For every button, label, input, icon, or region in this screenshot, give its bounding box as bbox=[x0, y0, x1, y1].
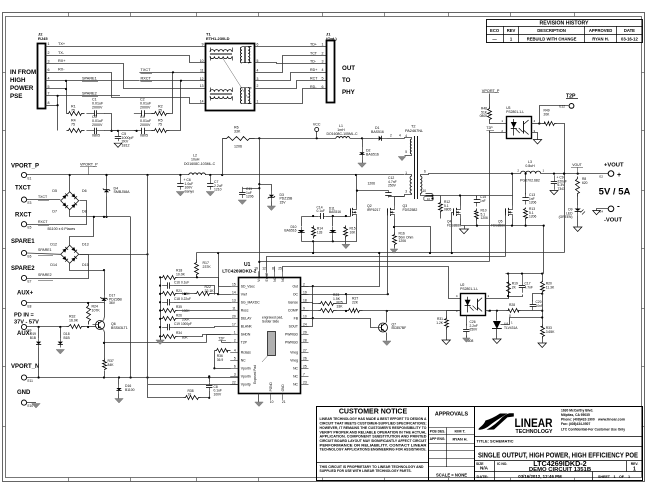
svg-text:75: 75 bbox=[158, 122, 162, 126]
wire R32 to Q6 base bbox=[84, 326, 96, 328]
svg-text:TD+: TD+ bbox=[310, 42, 317, 46]
svg-text:Isense: Isense bbox=[288, 301, 298, 305]
svg-text:7: 7 bbox=[303, 373, 305, 377]
svg-text:C19: C19 bbox=[174, 322, 180, 326]
svg-text:36V: 36V bbox=[109, 301, 116, 305]
vertical VPORT_P feed down bbox=[147, 175, 149, 254]
resistor R34 80K bbox=[161, 335, 178, 339]
svg-text:FDS8880: FDS8880 bbox=[447, 223, 461, 227]
svg-text:DATE:: DATE: bbox=[477, 474, 489, 479]
svg-text:RX+: RX+ bbox=[58, 59, 66, 63]
capacitor C13 1nF 1206 bbox=[525, 193, 527, 198]
wire T1.6 to J1.1 TD+ bbox=[255, 46, 327, 48]
wire J2.8 junction to SPARE2 bbox=[46, 105, 58, 107]
wire SPARE2 to bridge2 right vertex bbox=[27, 255, 89, 279]
svg-text:200K: 200K bbox=[182, 317, 190, 321]
wire TX- J2.2 to T1.10 bbox=[46, 56, 206, 63]
svg-text:22.1K: 22.1K bbox=[205, 289, 215, 293]
svg-text:SUPPLIED FOR USE WITH LINEAR T: SUPPLIED FOR USE WITH LINEAR TECHNOLOGY … bbox=[320, 469, 412, 473]
wire VPORT_P up to R6 bbox=[222, 138, 224, 175]
svg-text:SYNC: SYNC bbox=[265, 272, 269, 282]
svg-text:FDS2582: FDS2582 bbox=[403, 208, 418, 212]
wire U2 pin1 up to top rail bbox=[486, 282, 509, 299]
svg-text:2: 2 bbox=[390, 134, 392, 138]
approvals box bbox=[429, 407, 475, 481]
svg-text:27: 27 bbox=[303, 349, 307, 353]
svg-text:SPARE1: SPARE1 bbox=[11, 239, 35, 245]
wire Q4 gate bbox=[452, 213, 454, 253]
svg-text:RXCT: RXCT bbox=[15, 213, 32, 219]
capacitor C1 0.01uF 2000V bbox=[86, 113, 94, 115]
wire Q4 drain bbox=[460, 196, 462, 206]
diode D2 BAS516 bbox=[362, 138, 364, 147]
svg-text:SMBJ58A: SMBJ58A bbox=[114, 190, 131, 194]
svg-text:APP ENG.: APP ENG. bbox=[430, 437, 446, 441]
wire VPORT_N rail bbox=[27, 377, 239, 379]
capacitor C7 2.2uF 1210 bbox=[210, 175, 212, 184]
wire T1.2 to J1.5 RCT bbox=[255, 81, 327, 89]
wire OC row to Q3 gate bbox=[301, 294, 388, 296]
transformer T1 ETH1-230LD box bbox=[206, 44, 255, 111]
resistor R48 51K 0805 bbox=[488, 107, 492, 121]
svg-text:Rclass: Rclass bbox=[241, 351, 251, 355]
svg-text:PWRGD: PWRGD bbox=[285, 333, 299, 337]
svg-text:RD+: RD+ bbox=[310, 68, 317, 72]
svg-text:VOUT: VOUT bbox=[572, 163, 581, 167]
svg-text:NC: NC bbox=[281, 276, 285, 281]
ground below R31 bbox=[446, 330, 448, 341]
Linear Technology logo bbox=[475, 407, 643, 481]
svg-text:BAS516: BAS516 bbox=[329, 210, 341, 214]
svg-text:11.3K: 11.3K bbox=[546, 285, 555, 289]
svg-text:13: 13 bbox=[232, 298, 236, 302]
capacitor C10 snubber and pin 10 loop bbox=[426, 193, 433, 195]
ground below Q4 bbox=[464, 226, 466, 229]
svg-text:DATE: DATE bbox=[624, 28, 635, 33]
svg-text:D7: D7 bbox=[52, 210, 57, 214]
svg-text:36.9: 36.9 bbox=[217, 358, 224, 362]
T2 core bbox=[414, 136, 416, 199]
resistor R38 10 bbox=[184, 396, 201, 400]
wire bus gate drive A bbox=[197, 252, 565, 254]
zener D3 PDZ15B 15V bbox=[260, 185, 272, 191]
op-amp U1 LTC4269IDKD-2 IC body bbox=[239, 278, 301, 394]
svg-text:PD IN =: PD IN = bbox=[14, 313, 34, 319]
svg-text:ECO: ECO bbox=[490, 28, 500, 33]
wire L1 to D1 bbox=[350, 138, 373, 140]
VCC symbol bbox=[316, 132, 318, 139]
svg-text:12: 12 bbox=[200, 77, 204, 81]
wire N rail horizontal bbox=[70, 216, 131, 218]
wire TLV431 ref bbox=[501, 318, 543, 325]
svg-text:DO1608C-103ML-C: DO1608C-103ML-C bbox=[184, 162, 216, 166]
svg-text:ETH1-230LD: ETH1-230LD bbox=[206, 36, 230, 41]
wire Q3 gate from U1 bbox=[387, 213, 389, 295]
svg-text:LINEAR: LINEAR bbox=[515, 416, 553, 430]
ground below clamp rail bbox=[345, 242, 347, 245]
svg-text:E12: E12 bbox=[559, 105, 565, 109]
svg-text:26: 26 bbox=[303, 357, 307, 361]
svg-text:GND: GND bbox=[17, 390, 31, 396]
LED D9 GREEN bbox=[577, 197, 579, 205]
T1 lower primary winding bbox=[210, 90, 232, 92]
wire Q5 drain to output rail bbox=[512, 196, 514, 206]
svg-text:+: + bbox=[617, 172, 621, 179]
svg-text:PS2801-1-L: PS2801-1-L bbox=[506, 110, 524, 114]
svg-text:1206: 1206 bbox=[246, 195, 254, 199]
svg-text:3: 3 bbox=[48, 59, 50, 63]
wire D1 to T2 pin 4 bbox=[387, 138, 405, 140]
resistor R2 75 bbox=[152, 112, 170, 116]
transistor Q4 FDS8880 bbox=[453, 208, 455, 215]
svg-text:6: 6 bbox=[48, 68, 50, 72]
svg-text:21: 21 bbox=[282, 400, 286, 404]
svg-text:Vneg: Vneg bbox=[290, 351, 298, 355]
svg-text:19: 19 bbox=[303, 290, 307, 294]
wire R18 to U1 SD_Vsec bbox=[178, 278, 231, 287]
svg-text:6: 6 bbox=[257, 43, 259, 47]
resistor R12 5.1 0805 bbox=[439, 201, 443, 213]
svg-text:D5: D5 bbox=[52, 189, 57, 193]
svg-text:REV.: REV. bbox=[631, 462, 639, 466]
svg-text:REVISION HISTORY: REVISION HISTORY bbox=[539, 21, 589, 27]
wire SHDN elbow bbox=[207, 335, 231, 343]
svg-text:1206: 1206 bbox=[367, 182, 375, 186]
capacitor C6 1.0uF 100V Sanyo bbox=[180, 175, 182, 184]
svg-text:(Opt.): (Opt.) bbox=[326, 36, 337, 41]
svg-text:TECHNOLOGY APPLICATIONS ENGINE: TECHNOLOGY APPLICATIONS ENGINEERING FOR … bbox=[320, 448, 427, 452]
wire U2 pin2 row bbox=[486, 310, 507, 312]
svg-text:HIGH: HIGH bbox=[10, 77, 26, 84]
zener D17 PDZ36B 36V bbox=[104, 296, 106, 299]
svg-text:TO: TO bbox=[342, 77, 351, 84]
wire secondary to +VOUT rail bbox=[435, 173, 521, 175]
svg-text:SPARE2: SPARE2 bbox=[82, 91, 97, 95]
wire TXCT to T1.11 bbox=[139, 72, 205, 74]
wire Q6 collector/emitter vertical bbox=[104, 303, 105, 321]
svg-text:COMP: COMP bbox=[288, 309, 299, 313]
svg-text:84K: 84K bbox=[108, 363, 115, 367]
svg-text:R28: R28 bbox=[509, 303, 515, 307]
resistor R26 200K bbox=[161, 317, 178, 321]
svg-text:5V / 5A: 5V / 5A bbox=[599, 187, 631, 198]
resistor R15 10K bbox=[344, 226, 348, 239]
svg-text:SHEET: SHEET bbox=[598, 475, 611, 479]
capacitor C11 1uF 1206 bbox=[243, 188, 260, 190]
svg-text:-VOUT: -VOUT bbox=[604, 218, 622, 224]
svg-text:1630 McCarthy Blvd.: 1630 McCarthy Blvd. bbox=[561, 409, 593, 413]
svg-text:8: 8 bbox=[48, 101, 50, 105]
capacitor C8 0.1uF 100V bbox=[209, 377, 211, 383]
T1 lower secondary winding bbox=[210, 96, 232, 98]
wire T1.3 to J1.4 RD+ bbox=[255, 73, 327, 81]
svg-text:4: 4 bbox=[257, 69, 259, 73]
svg-text:C16: C16 bbox=[174, 281, 180, 285]
svg-text:KIM T.: KIM T. bbox=[455, 430, 466, 434]
optocoupler U3 PS2801-1-L bbox=[507, 117, 532, 139]
svg-text:SPARE1: SPARE1 bbox=[38, 248, 52, 252]
svg-text:GND: GND bbox=[281, 384, 285, 392]
svg-text:B1B: B1B bbox=[30, 336, 37, 340]
svg-text:1206: 1206 bbox=[529, 201, 537, 205]
wire Q4 source to rail bbox=[460, 219, 462, 226]
svg-text:10: 10 bbox=[303, 314, 307, 318]
svg-text:BAS516: BAS516 bbox=[371, 130, 384, 134]
wire R23/R25 bus bbox=[337, 295, 347, 304]
svg-text:620: 620 bbox=[582, 181, 588, 185]
svg-text:2000V: 2000V bbox=[92, 105, 103, 109]
capacitor C14 0.1uF in series bbox=[319, 216, 321, 218]
svg-text:0.22uF: 0.22uF bbox=[181, 297, 191, 301]
capacitor C20 10nF bbox=[521, 310, 533, 312]
wire bus gate drive B bbox=[267, 257, 506, 272]
svg-text:0.8uH: 0.8uH bbox=[525, 164, 535, 168]
svg-text:Vportn: Vportn bbox=[241, 367, 251, 371]
svg-text:AUX+: AUX+ bbox=[17, 290, 34, 296]
sync rect ground rail bbox=[461, 225, 544, 227]
svg-text:DO1608C-105ML-C: DO1608C-105ML-C bbox=[326, 132, 358, 136]
svg-text:2: 2 bbox=[48, 51, 50, 55]
wire bridge1 top to VPORT_P bbox=[69, 175, 71, 192]
svg-text:E3: E3 bbox=[28, 201, 32, 205]
svg-text:8: 8 bbox=[272, 267, 274, 271]
svg-text:U1: U1 bbox=[244, 262, 251, 268]
svg-text:17: 17 bbox=[232, 322, 236, 326]
svg-text:DEMO CIRCUIT 1351B: DEMO CIRCUIT 1351B bbox=[529, 467, 591, 473]
ground below R16 bbox=[394, 247, 396, 249]
svg-text:PWRGD: PWRGD bbox=[285, 341, 299, 345]
svg-text:Solder Side: Solder Side bbox=[262, 319, 279, 323]
svg-text:IC NO.: IC NO. bbox=[497, 462, 507, 466]
svg-text:6: 6 bbox=[234, 365, 236, 369]
title rows bbox=[474, 436, 642, 438]
svg-text:22: 22 bbox=[232, 381, 236, 385]
svg-text:E5: E5 bbox=[28, 226, 32, 230]
resistor R33 3.65K bbox=[541, 325, 545, 339]
capacitor C26 2.2nF 250V 1808 bbox=[466, 324, 468, 329]
svg-text:PG0702.682: PG0702.682 bbox=[520, 179, 540, 183]
wire TX+ J2.1 to T1.9 bbox=[46, 46, 206, 48]
svg-text:E11: E11 bbox=[28, 379, 34, 383]
svg-text:2: 2 bbox=[303, 282, 305, 286]
svg-text:1206: 1206 bbox=[481, 216, 489, 220]
svg-text:SG_MAXDC: SG_MAXDC bbox=[241, 301, 261, 305]
svg-text:RJ45: RJ45 bbox=[38, 36, 48, 41]
svg-text:100V: 100V bbox=[214, 392, 223, 396]
ground below C9 bbox=[550, 191, 558, 195]
svg-text:1: 1 bbox=[257, 100, 259, 104]
resistor R49 20K bbox=[543, 122, 557, 126]
svg-text:100K: 100K bbox=[182, 309, 190, 313]
revision history table bbox=[487, 20, 643, 43]
ground below C26 bbox=[466, 336, 468, 339]
resistor R19 2K bbox=[508, 274, 510, 281]
svg-text:2000V: 2000V bbox=[140, 123, 151, 127]
capacitor C4 0.01uF 2000V 0805 bbox=[134, 130, 142, 132]
svg-text:RX-: RX- bbox=[58, 68, 65, 72]
svg-text:33K: 33K bbox=[337, 304, 344, 308]
svg-text:BLANK: BLANK bbox=[241, 325, 253, 329]
resistor R17 237K bbox=[195, 260, 199, 278]
svg-text:Vneg: Vneg bbox=[290, 359, 298, 363]
wire SPARE2 from J2.7 bbox=[46, 95, 121, 97]
wire PWRGD stub bbox=[301, 294, 307, 296]
wire R49 right down bbox=[557, 124, 565, 253]
ground below D18 bbox=[56, 350, 64, 355]
svg-text:75: 75 bbox=[71, 122, 75, 126]
ground below D2 bbox=[362, 160, 364, 163]
terminal E14 -VOUT bbox=[608, 206, 614, 212]
exposed pad rectangle bbox=[268, 332, 276, 356]
svg-text:SPARE1: SPARE1 bbox=[82, 76, 97, 80]
svg-text:2: 2 bbox=[257, 84, 259, 88]
terminal E9 AUX- bbox=[21, 324, 26, 329]
wire SPARE1 junction to vertical bbox=[79, 254, 147, 256]
wire L2 to T2 primary bbox=[206, 174, 405, 176]
svg-text:4.7nF: 4.7nF bbox=[525, 285, 533, 289]
svg-text:6: 6 bbox=[322, 85, 324, 89]
svg-text:03-16-12: 03-16-12 bbox=[621, 37, 638, 42]
svg-text:4: 4 bbox=[234, 349, 236, 353]
resistor R31 1.2K bbox=[447, 311, 461, 317]
svg-text:14: 14 bbox=[200, 100, 204, 104]
transistor Q2 IRF6217 bbox=[350, 208, 352, 215]
svg-text:Sanyo: Sanyo bbox=[185, 189, 195, 193]
svg-text:PGND: PGND bbox=[269, 381, 273, 391]
svg-text:RD-: RD- bbox=[310, 85, 317, 89]
svg-text:10: 10 bbox=[200, 59, 204, 63]
wire Q5 source bbox=[512, 219, 514, 226]
svg-text:33K: 33K bbox=[234, 129, 241, 133]
T1 upper primary winding bbox=[210, 50, 232, 52]
svg-text:DELAY: DELAY bbox=[241, 317, 253, 321]
svg-text:107K: 107K bbox=[92, 308, 101, 312]
resistor R1 75 bbox=[67, 112, 85, 116]
svg-text:15: 15 bbox=[232, 282, 236, 286]
wire T1.5 to J1.3 TD- bbox=[255, 63, 327, 64]
diode D11 BAS516 bbox=[332, 217, 334, 227]
svg-text:10: 10 bbox=[423, 189, 427, 193]
feedback top rail bbox=[506, 273, 544, 275]
wire U1 right vertical bus bbox=[301, 286, 313, 288]
resistor R32 16.9K bbox=[67, 325, 85, 329]
svg-text:Vref: Vref bbox=[241, 293, 247, 297]
resistor R35 100K bbox=[161, 309, 178, 313]
svg-text:10K: 10K bbox=[350, 230, 357, 234]
svg-text:D14: D14 bbox=[50, 263, 57, 267]
U1 top pins bbox=[258, 271, 260, 277]
ground below D9 bbox=[577, 216, 579, 227]
svg-text:3: 3 bbox=[322, 60, 324, 64]
svg-text:TCT: TCT bbox=[310, 51, 318, 55]
connector J1 (Opt.) bbox=[327, 41, 335, 103]
wire R21 to Vref/R22 bbox=[178, 293, 195, 295]
svg-text:SPARE2: SPARE2 bbox=[38, 273, 52, 277]
wire Q5 gate bbox=[505, 213, 507, 257]
svg-text:100K: 100K bbox=[182, 292, 190, 296]
svg-text:E8: E8 bbox=[28, 305, 32, 309]
resistor R16 50m Ohm 1206 bbox=[393, 233, 397, 247]
svg-text:Vportp: Vportp bbox=[241, 383, 251, 387]
svg-text:0805: 0805 bbox=[444, 208, 452, 212]
resistor R37 84K bbox=[103, 359, 107, 371]
wire bridge2 top bbox=[70, 217, 94, 246]
T2 bias winding bbox=[410, 139, 412, 154]
svg-text:0805: 0805 bbox=[480, 114, 488, 118]
svg-text:POWER: POWER bbox=[10, 85, 34, 92]
wire Q2 source down bbox=[346, 219, 357, 242]
svg-text:DESCRIPTION: DESCRIPTION bbox=[537, 28, 566, 33]
svg-text:T2P: T2P bbox=[486, 126, 493, 130]
svg-text:B1B: B1B bbox=[64, 336, 71, 340]
svg-text:REBUILD WITH CHANGE: REBUILD WITH CHANGE bbox=[527, 37, 577, 42]
wire Q3 source to R16 bbox=[394, 219, 396, 233]
svg-text:D15: D15 bbox=[82, 263, 89, 267]
svg-text:+VOUT: +VOUT bbox=[604, 163, 624, 169]
svg-text:-: - bbox=[617, 201, 620, 211]
svg-text:BSS63LT1: BSS63LT1 bbox=[111, 326, 128, 330]
svg-text:CUSTOMER NOTICE: CUSTOMER NOTICE bbox=[339, 409, 408, 416]
svg-text:PSE: PSE bbox=[10, 93, 22, 100]
vertical VCC net down to U1 bbox=[259, 138, 261, 277]
svg-text:10: 10 bbox=[188, 393, 192, 397]
svg-text:APPROVED: APPROVED bbox=[589, 28, 613, 33]
svg-text:TX+: TX+ bbox=[58, 42, 66, 46]
svg-text:TLV431A: TLV431A bbox=[504, 326, 518, 330]
svg-text:9: 9 bbox=[202, 43, 204, 47]
svg-text:Out: Out bbox=[293, 285, 299, 289]
svg-text:E10: E10 bbox=[28, 404, 34, 408]
resistor R18 10.0K bbox=[161, 276, 178, 280]
transistor Q6 BSS63LT1 bbox=[96, 321, 105, 330]
svg-text:—: — bbox=[492, 37, 497, 42]
svg-text:TX-: TX- bbox=[58, 51, 65, 55]
svg-text:TXCT: TXCT bbox=[141, 68, 152, 72]
resistor R23 1.5K bbox=[319, 302, 337, 306]
svg-text:REV: REV bbox=[507, 28, 516, 33]
resistor R24 107K bbox=[87, 303, 91, 325]
svg-text:5: 5 bbox=[234, 357, 236, 361]
svg-text:VPORT_P: VPORT_P bbox=[80, 162, 98, 166]
svg-text:E4: E4 bbox=[599, 210, 603, 214]
ground below C5 bbox=[114, 143, 122, 147]
svg-text:37V - 57V: 37V - 57V bbox=[14, 320, 39, 326]
svg-text:SOUT: SOUT bbox=[289, 325, 298, 329]
ladder left bus bbox=[160, 277, 162, 340]
capacitor C18 0.22uF bbox=[162, 302, 167, 304]
svg-text:Fax: (408)434-0507: Fax: (408)434-0507 bbox=[561, 422, 590, 426]
gate clamp rail lower bbox=[302, 241, 346, 243]
resistor R14 133 bbox=[312, 226, 316, 239]
svg-text:25: 25 bbox=[278, 267, 282, 271]
svg-text:NC: NC bbox=[293, 367, 298, 371]
svg-text:NC: NC bbox=[241, 359, 246, 363]
svg-text:0805: 0805 bbox=[92, 134, 100, 138]
ground below ladder bus bbox=[160, 336, 162, 340]
wire U3 pin3 to ground bbox=[532, 133, 538, 140]
wire J2.5 junction to SPARE1 bbox=[46, 88, 67, 90]
svg-text:19: 19 bbox=[254, 267, 258, 271]
svg-text:1nF: 1nF bbox=[480, 199, 486, 203]
svg-text:1000pF: 1000pF bbox=[181, 322, 192, 326]
svg-text:PHY: PHY bbox=[342, 89, 356, 96]
svg-text:10nF: 10nF bbox=[536, 304, 544, 308]
resistor R36 36.9 bbox=[215, 349, 231, 353]
svg-text:SCALE = NONE: SCALE = NONE bbox=[436, 473, 467, 478]
wire R20 bottom to R33 bbox=[542, 294, 544, 325]
wire SPARE1 from J2.4 bbox=[46, 80, 140, 82]
diode D18 B1B bbox=[60, 327, 62, 338]
